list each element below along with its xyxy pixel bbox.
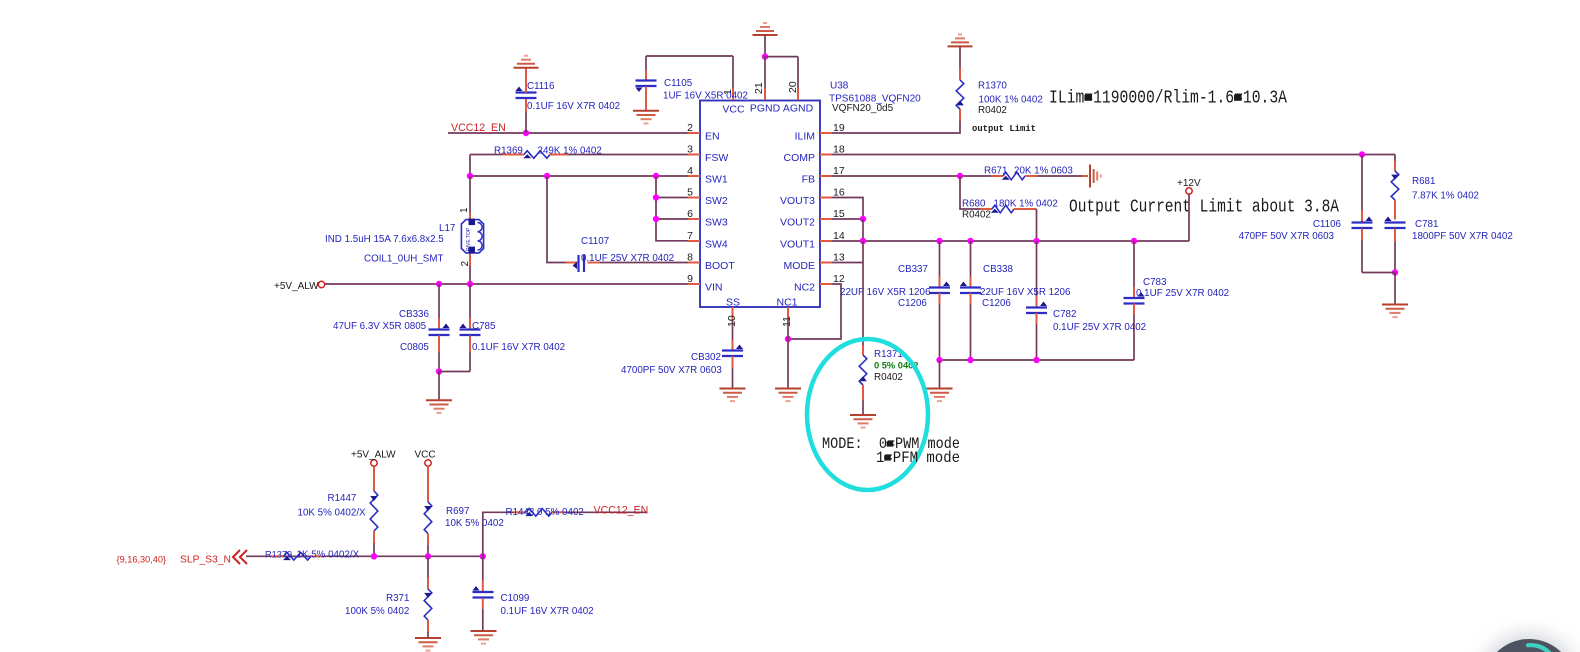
svg-text:SW4: SW4 (705, 239, 728, 251)
svg-text:C781: C781 (1415, 219, 1438, 230)
svg-text:0.1UF 25V X7R 0402: 0.1UF 25V X7R 0402 (1136, 288, 1229, 299)
svg-text:R1447: R1447 (328, 493, 357, 504)
svg-text:AGND: AGND (783, 103, 814, 115)
svg-text:100K 1% 0402: 100K 1% 0402 (979, 95, 1043, 106)
svg-text:C1107: C1107 (581, 236, 609, 247)
svg-text:L17: L17 (439, 223, 455, 234)
svg-text:470PF 50V X7R 0603: 470PF 50V X7R 0603 (1239, 231, 1335, 242)
svg-text:47UF 6.3V X5R 0805: 47UF 6.3V X5R 0805 (333, 321, 427, 332)
svg-text:BOOT: BOOT (705, 260, 735, 272)
svg-text:VOUT2: VOUT2 (780, 217, 815, 229)
svg-text:10K 5% 0402/X: 10K 5% 0402/X (298, 508, 367, 519)
svg-text:+12V: +12V (1177, 178, 1201, 189)
svg-text:SLP_S3_N: SLP_S3_N (180, 555, 231, 566)
svg-text:CB336: CB336 (399, 309, 430, 320)
svg-text:C785: C785 (472, 321, 496, 332)
svg-text:1K 5% 0402/X: 1K 5% 0402/X (297, 549, 360, 560)
svg-text:VIN: VIN (705, 282, 723, 294)
svg-text:C1105: C1105 (664, 78, 693, 89)
svg-text:C783: C783 (1143, 277, 1167, 288)
svg-text:output Limit: output Limit (972, 123, 1036, 134)
svg-text:{9,16,30,40}: {9,16,30,40} (117, 555, 167, 565)
svg-text:SW2: SW2 (705, 195, 728, 207)
svg-text:0.1UF 16V X7R 0402: 0.1UF 16V X7R 0402 (472, 342, 565, 353)
svg-text:VQFN20_0d5: VQFN20_0d5 (832, 103, 894, 114)
svg-text:20K 1% 0603: 20K 1% 0603 (1014, 166, 1073, 177)
svg-text:1UF 16V X5R 0402: 1UF 16V X5R 0402 (663, 91, 748, 102)
svg-text:R0402: R0402 (874, 372, 903, 383)
svg-text:RIVE.TOP: RIVE.TOP (466, 227, 472, 251)
svg-text:VOUT3: VOUT3 (780, 195, 815, 207)
svg-text:R371: R371 (386, 593, 409, 604)
svg-text:VCC: VCC (722, 104, 745, 116)
svg-text:0.1UF 25V X7R 0402: 0.1UF 25V X7R 0402 (1053, 322, 1146, 333)
svg-text:1800PF 50V X7R 0402: 1800PF 50V X7R 0402 (1412, 231, 1513, 242)
svg-text:C1206: C1206 (982, 298, 1011, 309)
svg-text:C1106: C1106 (1313, 219, 1342, 230)
svg-text:FB: FB (802, 174, 815, 186)
svg-text:0 5% 0402: 0 5% 0402 (537, 507, 584, 518)
svg-text:FSW: FSW (705, 152, 728, 164)
svg-text:7.87K 1% 0402: 7.87K 1% 0402 (1412, 191, 1479, 202)
svg-text:SW1: SW1 (705, 174, 728, 186)
svg-text:100K 5% 0402: 100K 5% 0402 (345, 606, 409, 617)
svg-text:10K 5% 0402: 10K 5% 0402 (445, 518, 504, 529)
svg-text:EN: EN (705, 131, 720, 143)
svg-text:C782: C782 (1053, 309, 1076, 320)
svg-text:IND 1.5uH 15A 7.6x6.8x2.5: IND 1.5uH 15A 7.6x6.8x2.5 (325, 234, 444, 245)
svg-text:C1099: C1099 (501, 593, 530, 604)
svg-text:R1448: R1448 (506, 507, 535, 518)
svg-text:VCC: VCC (415, 450, 436, 461)
svg-text:1: 1 (459, 207, 470, 213)
svg-text:11: 11 (781, 316, 793, 327)
svg-text:MODE: MODE (784, 260, 816, 272)
svg-text:C1206: C1206 (898, 298, 927, 309)
svg-text:2: 2 (460, 261, 471, 267)
svg-text:R0402: R0402 (962, 210, 991, 221)
svg-text:22UF 16V X5R 1206: 22UF 16V X5R 1206 (840, 287, 931, 298)
svg-text:21: 21 (753, 82, 765, 94)
svg-text:0.1UF 16V X7R 0402: 0.1UF 16V X7R 0402 (527, 101, 620, 112)
svg-text:PGND: PGND (750, 103, 781, 115)
svg-text:180K 1% 0402: 180K 1% 0402 (994, 199, 1058, 210)
svg-text:CB337: CB337 (898, 264, 928, 275)
svg-text:R0402: R0402 (978, 105, 1007, 116)
svg-text:CB338: CB338 (983, 264, 1014, 275)
svg-text:R671: R671 (984, 166, 1007, 177)
svg-text:U38: U38 (830, 81, 849, 92)
svg-text:4700PF 50V X7R 0603: 4700PF 50V X7R 0603 (621, 365, 722, 376)
svg-text:0.1UF 25V X7R 0402: 0.1UF 25V X7R 0402 (581, 253, 674, 264)
svg-text:NC1: NC1 (776, 297, 797, 309)
svg-text:+5V_ALW: +5V_ALW (351, 450, 396, 461)
svg-text:CB302: CB302 (691, 352, 721, 363)
svg-text:C1116: C1116 (527, 81, 555, 92)
svg-text:R1369: R1369 (494, 146, 523, 157)
svg-text:SS: SS (726, 297, 740, 309)
svg-text:ILIM: ILIM (795, 131, 815, 143)
svg-text:R1370: R1370 (978, 81, 1007, 92)
svg-text:+5V_ALW: +5V_ALW (274, 281, 319, 292)
svg-text:R681: R681 (1412, 176, 1435, 187)
svg-text:Output Current Limit about 3.8: Output Current Limit about 3.8A (1069, 196, 1340, 218)
svg-text:22UF 16V X5R 1206: 22UF 16V X5R 1206 (980, 287, 1071, 298)
svg-text:0.1UF 16V X7R 0402: 0.1UF 16V X7R 0402 (501, 606, 594, 617)
svg-text:VCC12_EN: VCC12_EN (451, 122, 506, 134)
svg-text:COMP: COMP (784, 152, 816, 164)
svg-text:COIL1_0UH_SMT: COIL1_0UH_SMT (364, 254, 444, 265)
svg-text:NC2: NC2 (794, 282, 815, 294)
svg-text:C0805: C0805 (400, 342, 429, 353)
svg-text:R697: R697 (446, 506, 469, 517)
svg-text:SW3: SW3 (705, 217, 728, 229)
svg-text:R1379: R1379 (265, 549, 292, 559)
svg-text:R680: R680 (962, 199, 986, 210)
svg-text:VCC12_EN: VCC12_EN (594, 505, 649, 517)
svg-text:249K 1% 0402: 249K 1% 0402 (538, 146, 602, 157)
svg-text:VOUT1: VOUT1 (780, 239, 815, 251)
